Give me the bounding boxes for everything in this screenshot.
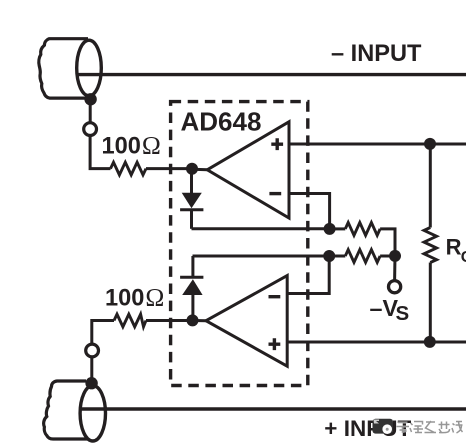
- junction: node E (U1b output node): [187, 314, 199, 326]
- diode D2 (bottom clamp): [180, 256, 203, 321]
- wire: node E to U1b output: [193, 319, 208, 322]
- electrode probe P1 (negative input electrode, top): [39, 39, 101, 98]
- wire: node D to −VS terminal: [393, 256, 396, 281]
- terminal −VS (open circle): [389, 281, 401, 293]
- junction: bottom electrode shield node: [85, 377, 97, 389]
- wire: terminal to bottom shield: [90, 357, 93, 383]
- junction: node B: [324, 223, 336, 235]
- resistor R1 (top feedback resistor): [330, 223, 395, 256]
- wire: U1b + input line to right edge: [287, 341, 466, 344]
- label −VS: [370, 295, 410, 325]
- svg-text:100Ω: 100Ω: [105, 283, 164, 312]
- label RG: [446, 235, 466, 266]
- wire: resistor to node A: [146, 167, 192, 170]
- resistor 100Ω (bottom): [92, 314, 193, 344]
- AD648 package outline (dashed box): [171, 102, 308, 386]
- wire: node A to U1a output: [192, 168, 208, 172]
- svg-text:S: S: [396, 302, 410, 325]
- watermark logo (dark icon with white circle): [373, 419, 394, 434]
- resistor R2 (bottom feedback resistor): [329, 250, 395, 263]
- wire: U1b − input feedback: [287, 256, 329, 294]
- svg-text:– INPUT: – INPUT: [331, 41, 422, 67]
- wire: + INPUT rail: [80, 407, 466, 410]
- op-amp U1b (AD648 bottom half): [206, 276, 287, 367]
- junction: node C: [323, 250, 335, 262]
- resistor 100Ω (top): [111, 162, 147, 175]
- wire: D1 cathode to node B: [192, 227, 330, 230]
- svg-text:G: G: [461, 249, 466, 266]
- wire: U1a + input line to right edge: [289, 143, 466, 146]
- wire: D2 cathode to node C: [193, 255, 330, 258]
- junction: node D (R1/R2 common): [389, 250, 401, 262]
- op-amp U1a (AD648 top half): [207, 122, 289, 218]
- wire: shield to terminal: [89, 99, 92, 124]
- svg-text:R: R: [446, 235, 462, 260]
- electrode probe P2 (positive input electrode, bottom): [44, 381, 106, 441]
- svg-text:–V: –V: [370, 295, 399, 321]
- wire: − INPUT rail: [78, 73, 466, 76]
- junction: node A (U1a output node): [186, 163, 198, 175]
- svg-text:100Ω: 100Ω: [102, 131, 161, 160]
- watermark text 云深之无迹 (grey CJK strokes): [397, 423, 410, 433]
- wire: terminal down and to resistor: [90, 136, 110, 169]
- diode D1 (top clamp): [180, 169, 203, 229]
- terminal (open circle, bottom): [86, 344, 99, 357]
- junction: node at RG top: [424, 138, 436, 150]
- junction: top electrode shield node: [84, 93, 96, 105]
- svg-text:+ INPUT: + INPUT: [324, 416, 411, 441]
- wire: U1a − input feedback: [289, 194, 330, 229]
- junction: node at RG bottom: [424, 336, 436, 348]
- terminal (open circle, top): [84, 123, 97, 136]
- resistor RG (gain resistor): [424, 144, 437, 342]
- svg-text:AD648: AD648: [181, 106, 262, 136]
